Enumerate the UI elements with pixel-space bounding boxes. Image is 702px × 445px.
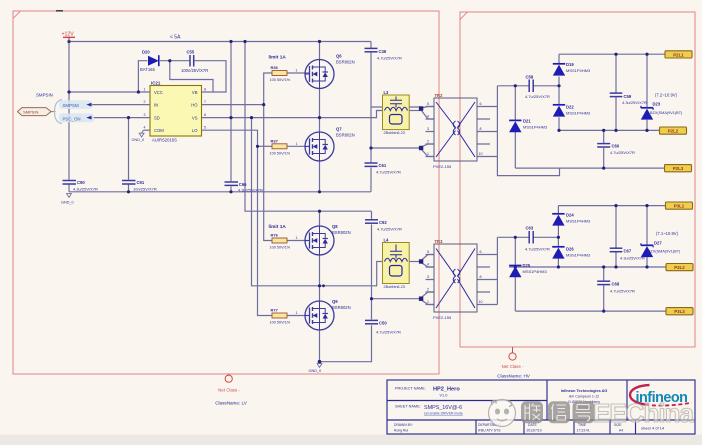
watermark logo circle (489, 400, 516, 427)
svg-text:set enable DRIVER mode: set enable DRIVER mode (424, 412, 463, 416)
svg-text:4.7u/25V/X7R: 4.7u/25V/X7R (376, 170, 401, 175)
node rail2 taps (557, 129, 560, 132)
wire D21 bottom rail3 (514, 130, 516, 168)
transformer TR2 (427, 93, 483, 169)
wire D22 to rail2 (558, 117, 560, 130)
wire TR3 square links bottom (421, 292, 434, 305)
svg-text:100 50V/1%: 100 50V/1% (270, 246, 291, 250)
node rail3 tap (602, 167, 605, 170)
svg-text:BZX(SMA)9V1(BT): BZX(SMA)9V1(BT) (648, 249, 681, 253)
wire D23 branch (646, 54, 648, 108)
svg-text:100n/25V/X7R: 100n/25V/X7R (181, 68, 208, 73)
svg-text:TIME: TIME (578, 423, 587, 427)
wire HO vertical down to R76 (264, 105, 272, 241)
svg-text:6: 6 (480, 250, 482, 254)
svg-text:8: 8 (480, 127, 482, 131)
wire C68 bottom (603, 285, 605, 311)
wire LO to vertical (202, 130, 273, 315)
node rail5 taps (514, 265, 517, 268)
svg-text:limit 1A: limit 1A (269, 224, 287, 230)
svg-text:C36: C36 (379, 49, 387, 54)
svg-text:1: 1 (296, 69, 298, 73)
svg-text:TR2: TR2 (435, 93, 444, 98)
svg-text:SHEET NAME:: SHEET NAME: (395, 405, 421, 409)
wire D21 top (514, 86, 516, 120)
diode D26 (552, 247, 591, 259)
wire TR2 square links top (421, 107, 434, 120)
svg-text:5: 5 (204, 126, 206, 130)
svg-text:MSS1P4HM3: MSS1P4HM3 (566, 218, 591, 223)
svg-text:3: 3 (427, 275, 429, 279)
svg-text:L4: L4 (384, 238, 390, 243)
svg-text:HO: HO (191, 103, 198, 108)
svg-text:+12V: +12V (62, 32, 75, 38)
svg-text:4.3u/25V/X7R: 4.3u/25V/X7R (238, 188, 263, 193)
svg-text:C59: C59 (624, 94, 632, 99)
node ground bus (127, 190, 130, 193)
diode D25 (509, 263, 547, 277)
node rail4 taps (614, 204, 617, 207)
wire Q8 source to lower midpoint (319, 255, 321, 286)
svg-text:IFBU ATV SYS: IFBU ATV SYS (478, 429, 501, 433)
svg-text:3: 3 (144, 113, 146, 117)
node TR2 primary squares (419, 106, 423, 110)
capacitor C50 (365, 320, 401, 334)
capacitor C61 (365, 163, 402, 175)
svg-text:A4: A4 (619, 429, 623, 433)
wire D19 branch (558, 54, 560, 63)
wire Q8 drain (319, 211, 321, 226)
wire IC21 COM stub (144, 129, 151, 131)
wire VCC feed to IC21 pin1 (69, 91, 150, 93)
svg-text:Rong Rui: Rong Rui (394, 429, 408, 433)
svg-text:VCC: VCC (154, 90, 163, 95)
wire C90 to ground bus (68, 185, 70, 192)
svg-text:GND_0: GND_0 (309, 369, 322, 373)
svg-text:Q7: Q7 (336, 127, 342, 132)
svg-text:3: 3 (427, 127, 429, 131)
title block drawn-by row (394, 423, 665, 433)
svg-text:ClassName: HV: ClassName: HV (497, 374, 531, 379)
wire VS vertical to lower midpoint (252, 118, 385, 286)
wire C63 series left (497, 236, 528, 238)
node lower midpoint (318, 284, 321, 287)
svg-text:MSS1P4HM3: MSS1P4HM3 (523, 269, 548, 274)
port output 2 (660, 127, 687, 134)
ground GND_0 at IC21 COM (132, 130, 145, 142)
svg-text:AUIRS2016S: AUIRS2016S (152, 138, 177, 143)
svg-text:100 50V/1%: 100 50V/1% (270, 78, 291, 82)
port output 4 (666, 202, 693, 209)
capacitor C59 (610, 93, 647, 105)
wire C50 top to TR3 tap (371, 224, 373, 319)
svg-text:SMPSIN: SMPSIN (36, 93, 53, 98)
watermark char wei (521, 401, 543, 423)
wire C58 series left (497, 85, 528, 87)
wire vertical C66 branch (230, 42, 232, 182)
capacitor C58 (525, 75, 550, 100)
wire C58 series right (534, 85, 559, 87)
wire bootstrap D20 to C55 (160, 60, 189, 62)
node TR3 primary squares (419, 259, 423, 263)
HV class boundary box (460, 12, 695, 347)
node bootstrap (168, 59, 171, 62)
wire +12V vertical to C90 (68, 38, 70, 180)
svg-text:R36: R36 (271, 65, 279, 70)
wire L3 output to TR2 (408, 110, 422, 112)
svg-text:PROJECT NAME:: PROJECT NAME: (395, 387, 426, 391)
node HO (262, 103, 265, 106)
wire C67 branch (615, 206, 617, 248)
svg-text:2: 2 (427, 140, 429, 144)
svg-text:D24: D24 (566, 213, 574, 218)
wire C60 top (603, 130, 605, 143)
svg-text:1: 1 (296, 311, 298, 315)
svg-text:TR3: TR3 (435, 239, 444, 244)
node TR3 tap (370, 297, 373, 300)
svg-text:C60: C60 (612, 144, 620, 149)
wire HO to vertical (202, 104, 264, 106)
node lower rail Q8 (318, 210, 321, 213)
wire output rail4 (558, 205, 665, 207)
svg-text:BAT165: BAT165 (140, 67, 155, 72)
svg-text:4: 4 (427, 263, 429, 267)
resistor R37 (270, 138, 298, 155)
svg-text:1: 1 (296, 236, 298, 240)
svg-text:10: 10 (479, 152, 483, 156)
svg-text:2Bobbin6.23: 2Bobbin6.23 (384, 131, 405, 135)
net label PSC_ON (63, 116, 92, 122)
transistor Q9 (305, 299, 351, 330)
wire output rail top 7V (559, 53, 665, 55)
wire C92 top (371, 211, 373, 219)
svg-text:D23: D23 (653, 102, 661, 107)
wire rail3 bottom output (515, 167, 664, 169)
svg-text:6: 6 (204, 113, 206, 117)
svg-text:4: 4 (427, 115, 429, 119)
wire Q7 source to ground bus (319, 161, 321, 192)
wire R37 to Q7 gate (287, 145, 310, 147)
svg-text:PXE2-155: PXE2-155 (433, 164, 452, 169)
svg-text:100 50V/1%: 100 50V/1% (270, 321, 291, 325)
wire secondary left vertical top (497, 86, 559, 176)
svg-text:(7.1~10.9V): (7.1~10.9V) (656, 231, 679, 236)
node C61 tap (369, 146, 372, 149)
svg-text:8: 8 (480, 275, 482, 279)
title block sheet row (395, 405, 463, 416)
node LO R37 (256, 145, 259, 148)
svg-text:C50: C50 (379, 321, 387, 326)
svg-text:BSR802N: BSR802N (336, 133, 355, 138)
svg-text:4: 4 (144, 126, 146, 130)
svg-text:Infineon Technologies AG: Infineon Technologies AG (561, 389, 608, 393)
svg-text:6: 6 (480, 102, 482, 106)
wire R76 to Q8 gate (287, 240, 308, 242)
title block project row (395, 387, 460, 398)
resistor R36 (270, 65, 298, 82)
wire D24 to node (557, 226, 559, 247)
svg-text:C66: C66 (239, 182, 247, 187)
wire HO vertical R36 feed (264, 73, 272, 105)
svg-text:ClassName: LV: ClassName: LV (215, 401, 248, 406)
diode D20 (140, 50, 159, 73)
wire D19 to node (558, 77, 560, 105)
svg-text:17:23:41: 17:23:41 (577, 429, 590, 433)
svg-text:2: 2 (427, 288, 429, 292)
node rail top taps (614, 53, 617, 56)
node VCC taps (67, 90, 70, 93)
svg-text:C55: C55 (187, 50, 195, 55)
svg-text:8: 8 (204, 88, 206, 92)
svg-text:7: 7 (204, 100, 206, 104)
net class marker LV (215, 374, 248, 406)
svg-text:IC21: IC21 (151, 81, 161, 86)
op-amp driver IC21 (144, 81, 207, 143)
wire C61 bottom (370, 168, 372, 192)
svg-text:D25: D25 (523, 263, 531, 268)
wire TR2 left pin stubs (426, 107, 435, 157)
resistor R76 (270, 233, 298, 250)
svg-text:R77: R77 (271, 308, 279, 313)
svg-text:P3L2: P3L2 (674, 265, 685, 270)
port SMPSIN (18, 93, 56, 116)
svg-text:IN: IN (154, 103, 158, 108)
svg-text:C91: C91 (137, 180, 145, 185)
svg-text:D20: D20 (142, 50, 150, 55)
capacitor C91 (122, 180, 157, 192)
svg-text:C61: C61 (379, 163, 387, 168)
wire ground bus GND_0 (69, 191, 371, 193)
svg-text:P2L1: P2L1 (673, 52, 684, 57)
svg-text:D27: D27 (654, 241, 662, 246)
port output 5 (666, 264, 693, 271)
svg-text:R76: R76 (271, 233, 279, 238)
svg-text:P2L3: P2L3 (673, 166, 684, 171)
wire D24 branch (557, 206, 559, 214)
svg-text:V1.0: V1.0 (440, 394, 448, 398)
ground GND_0 bus left (61, 194, 74, 205)
wire SD signal to IC21 pin3 (91, 117, 150, 119)
svg-text:1: 1 (144, 88, 146, 92)
svg-text:SMPSM: SMPSM (63, 103, 79, 108)
wire TR3 primary bottom link (372, 298, 422, 300)
wire C36 top (370, 42, 372, 49)
svg-text:P2L2: P2L2 (668, 129, 679, 134)
zener D27 (641, 241, 681, 258)
wire TR3 right pin stubs (477, 255, 497, 305)
diode D21 (509, 119, 548, 133)
wire bootstrap C55 to VB corner (194, 61, 226, 92)
node +12V rail taps (67, 40, 70, 43)
svg-text:GND_0: GND_0 (61, 201, 74, 205)
svg-text:PXE2-155: PXE2-155 (433, 315, 452, 320)
svg-text:C63: C63 (526, 226, 534, 231)
capacitor C55 (181, 50, 208, 74)
capacitor C63 (525, 226, 550, 252)
svg-text:HP2_Hero: HP2_Hero (433, 387, 460, 393)
svg-text:R37: R37 (271, 138, 279, 143)
transistor Q7 (305, 127, 355, 162)
capacitor C66 (225, 182, 264, 193)
wire C67 bottom (615, 252, 617, 267)
wire TR2 primary top link (371, 106, 421, 108)
capacitor C90 (63, 180, 99, 192)
wire C60 bottom (603, 148, 605, 168)
svg-text:5: 5 (427, 250, 429, 254)
transformer TR3 (427, 239, 483, 320)
port output 3 (665, 165, 692, 172)
port output 6 (666, 308, 693, 315)
svg-text:Q6: Q6 (336, 54, 342, 59)
wire R36 to Q6 gate (287, 72, 310, 74)
port output 1 (665, 51, 692, 58)
svg-text:4.7u/25V/X7R: 4.7u/25V/X7R (376, 330, 401, 335)
wire C59 bottom (615, 97, 617, 130)
wire C68 top (603, 267, 605, 281)
wire lower ground run (320, 325, 372, 362)
transistor Q6 (305, 54, 355, 89)
node lower ground (318, 360, 322, 364)
svg-text:EEChina: EEChina (593, 398, 694, 428)
svg-text:GND_0: GND_0 (132, 138, 145, 142)
wire R77 to Q9 gate (287, 315, 308, 317)
svg-text:VS: VS (192, 116, 198, 121)
transistor Q8 (305, 224, 351, 255)
capacitor C92 (365, 220, 402, 232)
wire TR2 primary bottom link (371, 147, 421, 149)
svg-text:Net Class -: Net Class - (502, 364, 524, 369)
wire D25 bottom (514, 277, 516, 311)
svg-text:PSC_ON: PSC_ON (63, 116, 81, 121)
wire C91 to ground bus (128, 185, 130, 192)
svg-text:Q8: Q8 (332, 224, 338, 229)
svg-text:SMPSIN: SMPSIN (23, 110, 38, 115)
wire rail6 bottom output (515, 310, 666, 312)
wire IN signal to IC21 pin2 (91, 104, 150, 106)
wire TR3 left pin stubs (426, 255, 435, 305)
svg-text:Q9: Q9 (332, 299, 338, 304)
svg-text:D26: D26 (566, 247, 574, 252)
svg-text:2Bobbin6.23: 2Bobbin6.23 (384, 285, 405, 289)
node C58 taps (514, 84, 517, 87)
svg-text:C90: C90 (77, 180, 85, 185)
wire secondary left vertical bottom (496, 237, 498, 304)
svg-text:P3L3: P3L3 (674, 309, 685, 314)
svg-text:C68: C68 (612, 282, 620, 287)
wire TR2 square links bottom (421, 144, 434, 157)
node VS taps (229, 116, 232, 119)
svg-text:C67: C67 (624, 249, 632, 254)
wire C66 to ground bus (230, 186, 232, 191)
svg-text:1: 1 (427, 300, 429, 304)
svg-text:4.7u/25V/X7R: 4.7u/25V/X7R (525, 247, 550, 252)
title block company address (561, 389, 608, 410)
svg-text:BZX(SMA)9V1(BT): BZX(SMA)9V1(BT) (650, 111, 683, 115)
svg-text:10: 10 (479, 300, 483, 304)
svg-text:SMPS_16V@-6: SMPS_16V@-6 (424, 405, 462, 411)
net class marker HV (497, 347, 531, 379)
wire C36 bottom to TR2 pin5 (370, 53, 372, 163)
svg-text:C58: C58 (526, 75, 534, 80)
zener D23 (641, 102, 683, 120)
wire +12V top rail (69, 41, 371, 43)
svg-text:DATE: DATE (528, 423, 538, 427)
wire L4 output to TR3 (408, 261, 422, 263)
diode D24 (552, 213, 591, 226)
svg-text:4.7u/25V/X7R: 4.7u/25V/X7R (610, 150, 635, 155)
capacitor C36 (365, 48, 403, 60)
svg-text:Net Class -: Net Class - (218, 388, 240, 393)
svg-text:4.3u/25V/X7R: 4.3u/25V/X7R (73, 187, 98, 192)
inductor L3 (383, 90, 410, 135)
wire R37 gate feed (258, 145, 273, 147)
wire Q7 drain (319, 118, 321, 132)
svg-text:DRAWN BY:: DRAWN BY: (394, 423, 413, 427)
wire rail2 mid output (559, 129, 660, 131)
svg-text:BSR802N: BSR802N (332, 230, 351, 235)
svg-text:2013/7/10: 2013/7/10 (527, 429, 542, 433)
diode D22 (553, 105, 591, 117)
svg-text:4.7u/25V/X7R: 4.7u/25V/X7R (377, 227, 402, 232)
svg-text:MSS1P4HM3: MSS1P4HM3 (566, 252, 591, 257)
wire C59 branch (615, 54, 617, 92)
node C63 taps (514, 236, 517, 239)
power +12V (62, 32, 76, 42)
svg-text:< 5A: < 5A (170, 35, 181, 41)
svg-text:1: 1 (427, 152, 429, 156)
wire vertical to lower bridge rail (245, 42, 372, 212)
wire Q9 drain (319, 286, 321, 301)
svg-text:LO: LO (192, 128, 198, 133)
svg-text:MSS1P4HM3: MSS1P4HM3 (523, 124, 548, 129)
svg-text:D22: D22 (566, 105, 574, 110)
svg-text:D21: D21 (523, 119, 531, 124)
svg-text:C92: C92 (379, 220, 387, 225)
svg-text:4.7u/25V/X7R: 4.7u/25V/X7R (610, 289, 635, 294)
svg-text:L3: L3 (384, 90, 390, 95)
wire rail5 mid output (509, 266, 666, 268)
svg-text:P3L1: P3L1 (674, 204, 685, 209)
svg-text:(7.2~10.9V): (7.2~10.9V) (655, 93, 678, 98)
svg-text:BSR802N: BSR802N (332, 305, 351, 310)
svg-text:4.3u/25V/X7R: 4.3u/25V/X7R (622, 100, 647, 105)
wire bootstrap top left (138, 61, 147, 92)
svg-text:2: 2 (144, 100, 146, 104)
svg-text:1: 1 (296, 142, 298, 146)
resistor R77 (270, 308, 298, 325)
svg-text:SD: SD (154, 116, 160, 121)
svg-text:VB: VB (192, 90, 198, 95)
svg-text:MSS1P4HM3: MSS1P4HM3 (566, 110, 591, 115)
node SD C91 (127, 116, 130, 119)
wire D27 branch (646, 206, 648, 246)
svg-text:COM: COM (154, 128, 164, 133)
wire Q6 drain (319, 42, 321, 60)
wire bootstrap mid drop to VB (170, 61, 213, 92)
node rail6 tap (602, 310, 605, 313)
logo Infineon (630, 385, 692, 406)
capacitor C67 (610, 248, 645, 260)
wire D25 top (514, 237, 516, 265)
svg-text:10n/25V/X7R: 10n/25V/X7R (133, 187, 157, 192)
capacitor C60 (597, 144, 635, 156)
wire D27 bottom (646, 257, 648, 267)
wire Q6 source to midpoint (319, 89, 321, 118)
inductor L4 (383, 238, 410, 290)
ground GND_0 lower bridge (309, 364, 322, 373)
LV class boundary box (13, 11, 439, 374)
svg-text:100 50V/1%: 100 50V/1% (270, 151, 291, 155)
